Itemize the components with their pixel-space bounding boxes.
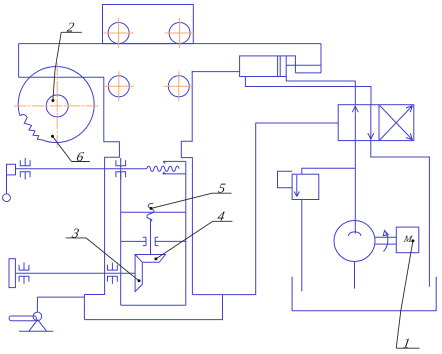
wire ram link vertical: [320, 44, 322, 73]
wire ram line to cylinder: [192, 71, 239, 73]
leader 6: [53, 136, 90, 161]
piston rod top: [286, 64, 321, 66]
pressure line P: [354, 141, 356, 234]
bearing shaft2 left: [19, 262, 29, 284]
inner box left edge: [120, 165, 122, 305]
S-hook link: [147, 203, 154, 221]
tool holder 4 (trapezoid): [135, 255, 165, 263]
leader dot 4: [154, 257, 157, 260]
leader lines and labels: [53, 32, 420, 348]
plunger rod: [150, 220, 152, 255]
rod guide bearing: [121, 237, 186, 245]
wire band left edge: [18, 44, 20, 78]
leader 2: [53, 32, 82, 100]
shaft 2 (lower feed shaft): [15, 272, 135, 274]
valve right position square: [379, 105, 414, 141]
bolt circle top-left: [108, 23, 129, 44]
handwheel: [9, 259, 15, 288]
piston rod bottom: [295, 72, 321, 74]
pump inner arc: [348, 232, 361, 236]
spring housing bottom: [163, 173, 186, 175]
orange centerlines: [14, 18, 195, 148]
shaft 1 (upper feed shaft): [16, 168, 147, 170]
leader dot 6: [51, 135, 54, 138]
pump suction pipe: [354, 262, 356, 289]
pump circle: [334, 221, 375, 262]
bolt circle top-right: [169, 23, 190, 44]
centerline bolt TR: [165, 18, 195, 48]
lever pivot circle: [33, 312, 42, 321]
valve left pos up arrow: [352, 105, 358, 140]
lever handle: [9, 316, 36, 321]
spring: [147, 166, 179, 171]
bolt circle mid-right: [168, 76, 189, 97]
tool 3 (vertical cutter): [135, 255, 142, 292]
valve U1 left position square: [338, 105, 379, 141]
motor box: [396, 227, 419, 253]
linkage bottom run: [84, 295, 222, 320]
relief inlet line: [302, 168, 356, 174]
column right edge: [181, 71, 192, 295]
column left edge: [84, 77, 119, 295]
leader dot 5: [150, 207, 153, 210]
knob stem: [6, 175, 8, 194]
bearing shaft1 left: [20, 158, 30, 180]
fulcrum ground line: [19, 330, 53, 332]
relief valve arrow: [294, 175, 299, 197]
wire band bottom edge: [19, 76, 104, 78]
rotation arrow arc: [384, 231, 388, 252]
centerline bolt MR: [164, 71, 194, 101]
relief valve V1 square: [292, 174, 319, 199]
rotation arrowhead: [383, 230, 388, 235]
leader dot 2: [51, 99, 54, 102]
bearing shaft1 right: [116, 158, 126, 180]
linkage column bottom to valve: [192, 123, 338, 295]
valve X arrow 1: [380, 106, 413, 140]
centerline bolt ML: [104, 71, 134, 101]
hydraulic cylinder body: [240, 56, 287, 77]
leader dot 1: [411, 239, 414, 242]
tank: [292, 277, 436, 311]
lever link line: [37, 297, 84, 312]
inner box bottom edge: [121, 304, 186, 306]
centerline big wheel vertical: [56, 63, 58, 148]
piston: [278, 56, 281, 77]
valve left pos down arrow: [368, 105, 374, 140]
leader dot 3: [138, 279, 141, 282]
linkage lever riser: [83, 295, 85, 320]
cylinder cap: [286, 56, 295, 73]
fulcrum triangle: [29, 320, 47, 332]
gear wheel 2 (big circle with gear-teeth bite): [18, 67, 94, 143]
pipe B (head end to valve): [286, 77, 355, 105]
valve X arrow 2: [380, 106, 413, 140]
centerline big wheel horizontal: [14, 105, 99, 107]
leader 4: [156, 221, 233, 259]
housing arrow bottom: [163, 172, 166, 174]
inner box cross line: [121, 211, 186, 213]
relief outlet to tank: [301, 200, 303, 292]
pump shaft lines: [375, 237, 396, 244]
machine top box: [103, 5, 194, 44]
pipe A (rod end to valve): [245, 77, 371, 105]
centerline bolt TL: [104, 18, 134, 48]
wheel hub inner circle: [46, 95, 68, 117]
gear teeth bite: [20, 114, 43, 140]
inner box right edge: [185, 161, 187, 305]
leader 1: [396, 241, 419, 348]
return line to tank: [371, 141, 430, 287]
spring housing top: [163, 160, 186, 162]
bolt circle mid-left: [108, 76, 129, 97]
bearing shaft2 right: [108, 262, 118, 284]
knob circle: [3, 194, 11, 202]
housing arrow top: [163, 161, 166, 163]
leader 5: [151, 193, 232, 208]
relief pilot box: [278, 171, 293, 187]
leader 3: [66, 238, 139, 281]
wire band top edge: [19, 43, 321, 45]
knob square: [7, 164, 16, 175]
